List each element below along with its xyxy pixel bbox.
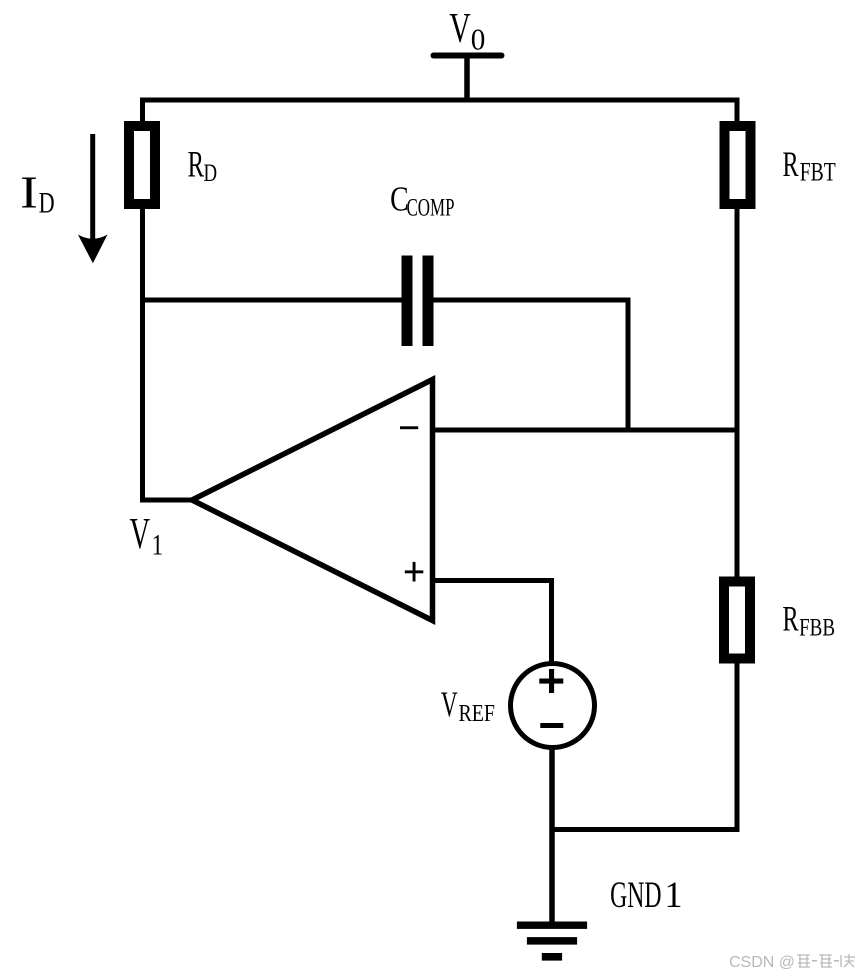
svg-text:I: I xyxy=(20,167,38,218)
svg-text:V: V xyxy=(130,509,151,558)
svg-text:D: D xyxy=(204,158,218,187)
svg-text:1: 1 xyxy=(665,875,683,916)
V_REF minus sign xyxy=(540,723,563,728)
watermark CJK glyph 侠 (drawn) xyxy=(841,954,855,967)
svg-text:0: 0 xyxy=(471,22,486,57)
svg-text:1: 1 xyxy=(152,530,164,562)
wire inverting input rail to right column xyxy=(433,428,737,433)
svg-text:CSDN @: CSDN @ xyxy=(729,954,795,971)
svg-text:COMP: COMP xyxy=(407,195,455,222)
ground GND1 bar 1 xyxy=(517,922,587,929)
wire from node V1 column to capacitor left plate xyxy=(143,298,403,303)
svg-text:R: R xyxy=(783,144,799,184)
svg-text:GND: GND xyxy=(610,875,661,916)
wire top rail V_O node: left column, top rail, right column, bottom rail xyxy=(143,100,738,830)
power symbol V_O top bar xyxy=(434,53,502,59)
capacitor C_COMP right plate xyxy=(423,256,434,347)
svg-text:FBT: FBT xyxy=(800,158,836,187)
wire V_REF bottom to ground node xyxy=(549,744,555,924)
current arrow I_D shaft xyxy=(90,134,95,240)
power symbol V_O vertical stub xyxy=(464,56,470,101)
op-amp U1 triangle xyxy=(192,380,433,621)
svg-text:REF: REF xyxy=(459,700,496,727)
watermark hyphen xyxy=(834,960,839,962)
svg-text:V: V xyxy=(441,684,458,724)
capacitor C_COMP left plate xyxy=(402,256,413,347)
resistor R_FBT xyxy=(725,126,751,204)
wire from capacitor right plate down to inverting input rail xyxy=(433,300,628,433)
current arrow I_D head xyxy=(78,235,108,264)
op-amp inverting input minus sign xyxy=(400,426,418,429)
svg-text:R: R xyxy=(188,145,205,186)
svg-text:V: V xyxy=(449,6,471,52)
op-amp non-inverting input plus sign xyxy=(405,570,424,573)
svg-text:D: D xyxy=(39,188,55,220)
resistor R_D xyxy=(129,126,155,204)
watermark hyphen xyxy=(812,960,817,962)
wire non-inverting input to V_REF top xyxy=(433,581,552,667)
ground GND1 bar 2 xyxy=(527,937,577,945)
svg-text:FBB: FBB xyxy=(799,613,835,642)
resistor R_FBB xyxy=(724,582,750,659)
svg-text:R: R xyxy=(783,599,799,639)
V_REF plus sign xyxy=(539,679,563,684)
watermark CJK glyph 猪 (drawn) xyxy=(797,955,810,967)
voltage source V_REF circle xyxy=(511,664,595,748)
ground GND1 bar 3 xyxy=(542,953,562,961)
watermark CJK glyph 猪 (drawn) xyxy=(819,955,832,967)
